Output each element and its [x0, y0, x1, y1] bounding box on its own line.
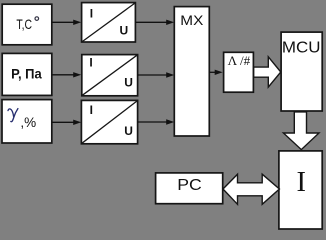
arrowhead into converter 3	[73, 120, 81, 125]
svg-text:MCU: MCU	[282, 39, 321, 56]
wire T,C to converter 1	[52, 21, 74, 23]
svg-text:MX: MX	[180, 12, 204, 28]
block arrow ADC to MCU	[254, 57, 281, 87]
arrowhead into MX input 2	[166, 72, 174, 77]
svg-text:U: U	[124, 76, 133, 90]
arrowhead into ADC	[215, 70, 223, 75]
svg-text:I: I	[297, 167, 307, 198]
svg-text:Λ /#: Λ /#	[228, 54, 251, 68]
microcontroller MCU	[281, 32, 322, 111]
arrowhead into converter 2	[73, 72, 81, 77]
sensor block gamma,% (humidity)	[2, 100, 52, 143]
arrowhead into MX input 3	[166, 119, 174, 124]
wire P to converter 2	[52, 74, 74, 76]
svg-text:I: I	[90, 7, 93, 21]
arrowhead into converter 1	[73, 20, 81, 25]
arrowhead into MX input 1	[166, 20, 174, 25]
wire converter 3 to MX	[138, 121, 167, 123]
ADC block A/#	[224, 52, 254, 92]
svg-text:I: I	[89, 56, 92, 70]
multiplexer MX	[174, 7, 209, 136]
computer PC	[156, 173, 223, 204]
svg-text:PC: PC	[177, 177, 202, 194]
I/U converter 1	[82, 3, 136, 42]
sensor block T,C (temperature)	[2, 4, 52, 45]
wire converter 1 to MX	[135, 21, 167, 23]
wire gamma to converter 3	[52, 121, 74, 123]
I/U converter 3	[81, 100, 137, 143]
interface block I	[279, 151, 322, 229]
svg-text:Р, Па: Р, Па	[11, 65, 42, 81]
svg-text:U: U	[124, 124, 133, 138]
svg-text:U: U	[119, 23, 128, 37]
svg-text:,%: ,%	[20, 114, 36, 130]
block arrow MCU down to interface	[283, 112, 319, 150]
svg-text:T,C: T,C	[16, 16, 32, 32]
wire converter 2 to MX	[138, 74, 167, 76]
sensor block P,Pa (pressure)	[2, 53, 52, 95]
I/U converter 2	[82, 55, 138, 96]
wire MX to ADC	[209, 71, 215, 73]
svg-text:I: I	[90, 103, 93, 117]
double block arrow PC to interface	[223, 174, 279, 204]
